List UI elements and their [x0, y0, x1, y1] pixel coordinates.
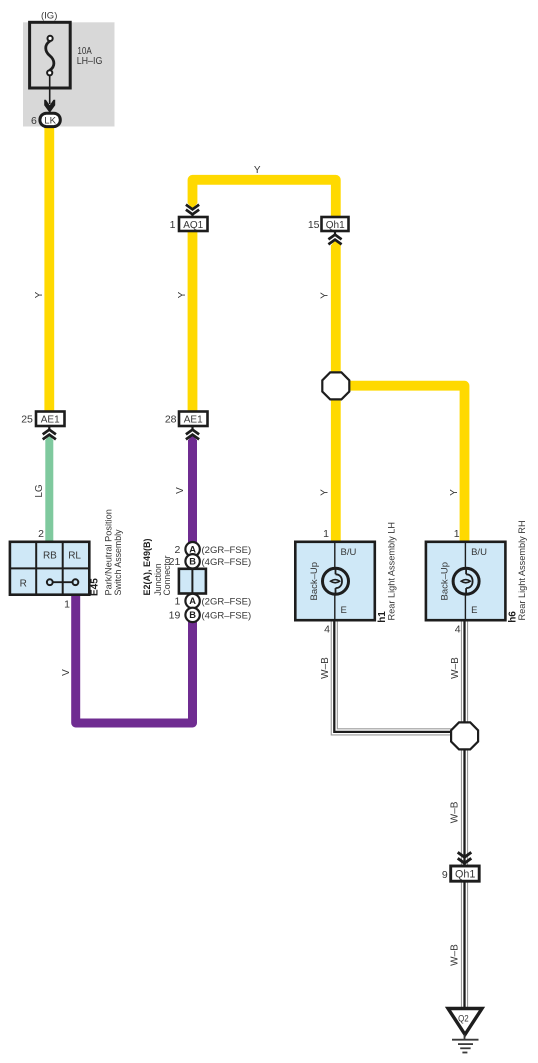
svg-text:Park/Neutral Position: Park/Neutral Position — [104, 509, 114, 595]
svg-text:19: 19 — [169, 610, 181, 622]
svg-text:1: 1 — [174, 596, 180, 608]
chevron splice below AE1-25 — [43, 425, 56, 439]
bulb back-up RH — [453, 568, 479, 594]
svg-text:B/U: B/U — [471, 547, 487, 558]
bulb back-up LH — [323, 568, 349, 594]
wire Y col2/col3 top run — [193, 180, 336, 219]
svg-text:E2(A), E49(B): E2(A), E49(B) — [141, 539, 152, 596]
fuse output line — [49, 75, 51, 104]
wire W-B octagon2 to Qh1-9 — [461, 749, 468, 866]
svg-text:1: 1 — [454, 528, 460, 540]
svg-text:15: 15 — [308, 219, 320, 231]
svg-text:A: A — [189, 596, 196, 606]
svg-text:28: 28 — [165, 414, 177, 426]
svg-text:(2GR–FSE): (2GR–FSE) — [202, 545, 252, 556]
svg-text:Back–Up: Back–Up — [309, 562, 320, 601]
circled pin A top — [185, 542, 199, 556]
svg-text:Y: Y — [449, 489, 460, 496]
wire Y tip at AQ1 splice — [188, 203, 198, 209]
svg-text:2: 2 — [38, 528, 44, 540]
chevron splice above Qh1-9 (pointing down) — [458, 852, 472, 866]
svg-text:25: 25 — [21, 414, 33, 426]
svg-text:W–B: W–B — [320, 657, 331, 679]
svg-text:(2GR–FSE): (2GR–FSE) — [202, 597, 252, 608]
fuse block shaded area — [23, 22, 115, 126]
svg-text:Connector: Connector — [162, 556, 172, 596]
svg-text:Y: Y — [177, 291, 188, 298]
switch contact — [53, 581, 73, 583]
svg-text:AE1: AE1 — [184, 415, 203, 426]
svg-text:6: 6 — [31, 115, 37, 127]
svg-text:E: E — [341, 605, 347, 616]
svg-text:A: A — [189, 544, 196, 554]
svg-text:AQ1: AQ1 — [183, 220, 203, 231]
chevron splice below AE1-28 — [186, 425, 199, 439]
svg-text:9: 9 — [442, 869, 448, 881]
svg-text:LG: LG — [34, 484, 45, 498]
fuse symbol — [46, 36, 54, 76]
circled pin B bottom — [185, 608, 199, 622]
svg-text:1: 1 — [323, 528, 329, 540]
junction octagon 1 — [322, 372, 349, 399]
wire LG (AE1-25 to E45) — [45, 435, 53, 441]
wire W-B RH lamp to octagon2 — [461, 620, 468, 724]
svg-text:(IG): (IG) — [41, 11, 57, 22]
wire W-B Qh1-9 to ground Q2 — [461, 882, 468, 1010]
svg-text:Q2: Q2 — [458, 1014, 469, 1025]
svg-text:B: B — [189, 557, 196, 567]
svg-text:Qh1: Qh1 — [455, 869, 475, 881]
wire V (E45 to AE1-28 via junction) — [76, 440, 193, 723]
rear light assembly RH box h6 — [426, 542, 506, 620]
chevron splice above AQ1 (pointing down) — [186, 205, 199, 218]
svg-text:LK: LK — [44, 116, 56, 127]
svg-text:B: B — [189, 610, 196, 620]
svg-text:RL: RL — [68, 551, 81, 562]
svg-text:4: 4 — [455, 624, 461, 636]
svg-text:Y: Y — [320, 292, 331, 299]
connector 1 AQ1 — [170, 217, 208, 231]
svg-text:W–B: W–B — [450, 801, 461, 823]
connector 25 AE1 — [21, 412, 64, 427]
svg-text:V: V — [175, 487, 186, 494]
wire Y octagon to RH lamp — [336, 386, 465, 546]
connector 28 AE1 — [165, 412, 208, 427]
svg-text:Back–Up: Back–Up — [440, 562, 451, 601]
svg-text:Y: Y — [320, 489, 331, 496]
arrow to LK — [44, 100, 55, 113]
svg-text:Switch Assembly: Switch Assembly — [113, 529, 123, 595]
wire Y col1 (fuse to AE1-25) — [44, 127, 54, 421]
svg-text:(4GR–FSE): (4GR–FSE) — [202, 611, 252, 622]
junction octagon 2 — [451, 722, 478, 749]
ground triangle Q2 — [448, 1009, 482, 1035]
fuse LH-IG rectangle — [30, 22, 71, 88]
wire W-B LH lamp to octagon2 — [334, 620, 452, 732]
wire Y octagon to LH lamp — [331, 239, 341, 245]
junction connector E2/E49 box — [179, 569, 206, 594]
E45 park/neutral position switch box — [10, 542, 89, 595]
svg-text:AE1: AE1 — [41, 415, 60, 426]
connector oval LK — [40, 113, 60, 126]
svg-text:2: 2 — [174, 544, 180, 556]
wire Y AQ1 to AE1-28 — [188, 232, 198, 424]
svg-text:1: 1 — [170, 219, 176, 231]
svg-text:4: 4 — [324, 624, 330, 636]
ground symbol — [452, 1035, 479, 1053]
svg-text:B/U: B/U — [341, 547, 357, 558]
circled pin B top — [185, 554, 199, 568]
svg-text:Y: Y — [254, 165, 261, 176]
svg-text:RB: RB — [43, 551, 57, 562]
svg-text:LH–IG: LH–IG — [77, 56, 103, 67]
connector 15 Qh1 — [308, 217, 349, 231]
svg-text:Y: Y — [34, 291, 45, 298]
svg-text:Rear Light Assembly LH: Rear Light Assembly LH — [387, 522, 397, 621]
svg-text:Qh1: Qh1 — [326, 220, 345, 231]
svg-text:Rear Light Assembly RH: Rear Light Assembly RH — [517, 520, 527, 620]
rear light assembly LH box h1 — [295, 542, 375, 620]
svg-text:(4GR–FSE): (4GR–FSE) — [202, 557, 252, 568]
svg-text:W–B: W–B — [450, 944, 461, 966]
svg-text:R: R — [20, 578, 27, 589]
svg-text:1: 1 — [64, 599, 70, 611]
svg-text:V: V — [61, 669, 72, 676]
svg-text:E: E — [471, 605, 477, 616]
svg-text:W–B: W–B — [450, 657, 461, 679]
svg-text:E45: E45 — [90, 578, 101, 596]
circled pin A bottom — [185, 594, 199, 608]
chevron splice below Qh1-15 (pointing up) — [328, 230, 341, 244]
connector 9 Qh1 — [442, 866, 479, 881]
